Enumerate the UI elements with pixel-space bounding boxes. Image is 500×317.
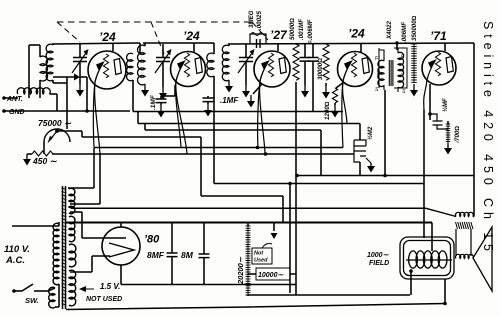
wire bus y154	[52, 152, 354, 156]
wire V6 top to B+	[120, 223, 122, 228]
wire stage3 top bus	[229, 43, 474, 44]
wire x290 down	[289, 184, 291, 294]
svg-text:8MF: 8MF	[147, 250, 165, 260]
svg-text:.001MF: .001MF	[298, 19, 305, 40]
capacitor C4 tuning stage3	[238, 44, 255, 85]
wire tap arrow	[271, 223, 278, 240]
svg-text:SW.: SW.	[25, 296, 39, 305]
svg-text:3MEG: 3MEG	[248, 10, 255, 28]
resistor R10 10000 ohm	[248, 268, 296, 280]
coil T1 secondary mid1	[69, 216, 75, 241]
label C11 8MF	[147, 250, 165, 260]
resistor R9 20200 ohm divider	[246, 223, 251, 297]
wire x283 down	[282, 196, 284, 223]
wire V5 grid lead	[424, 59, 437, 238]
wire bus y295	[248, 294, 410, 296]
wire V4 plate to top bus	[360, 43, 362, 52]
wire V4 cathode lead	[343, 62, 351, 124]
wire y130 drop right	[320, 130, 322, 176]
tube V1 '24	[88, 51, 126, 89]
ground below C3	[157, 105, 165, 118]
coil T3 secondary	[222, 43, 229, 81]
capacitor C9 .5MF bias bypass	[430, 114, 448, 129]
label V5 '71	[430, 29, 447, 43]
wire V3 cathode lead	[260, 62, 268, 153]
svg-text:’24: ’24	[348, 27, 365, 41]
ground below C1	[76, 84, 84, 97]
svg-text:Used: Used	[254, 258, 268, 264]
wire V5 plate to top bus	[444, 43, 446, 51]
label R4 1200	[324, 101, 331, 120]
capacitor C3 .1MF bypass	[156, 96, 167, 105]
label 1.5V not used	[79, 282, 122, 303]
wire T5 top right	[473, 176, 474, 217]
capacitor C2 tuning stage2	[155, 44, 172, 87]
label V1 '24	[99, 30, 116, 44]
wire V1 grid lead	[93, 61, 105, 147]
wire stage2 grid bus	[143, 42, 214, 44]
resistor R3 30000 ohm	[323, 44, 329, 86]
ground at R11	[366, 158, 375, 173]
resistor R6 700 ohm bias	[446, 121, 451, 143]
wire V6 bottom lead	[120, 265, 122, 285]
wire bus y176	[295, 174, 474, 178]
coil T1 primary lower	[48, 284, 59, 308]
wire x432 down to speaker	[431, 223, 433, 252]
svg-text:50000Ω: 50000Ω	[289, 18, 296, 40]
label R1 3MEG	[248, 10, 255, 28]
capacitor C8 .006MF coupling	[308, 44, 319, 112]
coil T1 secondary bottom	[69, 270, 76, 306]
tube V6 '80 rectifier	[102, 227, 140, 265]
svg-text:350000Ω: 350000Ω	[411, 15, 418, 41]
capacitor C6 .1MF cathode bypass	[203, 96, 214, 104]
wire secondary top to grid bus	[53, 43, 140, 45]
label C8 =.006MF	[307, 19, 314, 44]
transformer T5 output primary	[456, 212, 474, 216]
wire bus y123	[138, 112, 360, 124]
wire volume arm lead	[55, 129, 201, 137]
transformer T5 secondary	[456, 254, 474, 258]
svg-text:1000∼: 1000∼	[367, 252, 390, 259]
svg-text:=.006MF: =.006MF	[307, 19, 314, 44]
wire bus y196	[201, 195, 283, 197]
potentiometer R7 75000 ohm volume	[38, 118, 72, 144]
transformer T4 interstage	[375, 48, 407, 95]
ground below T2 secondary	[141, 84, 149, 97]
resistor R4 1200 ohm bias	[332, 88, 337, 105]
wire antenna coil to gnd bus	[50, 94, 58, 111]
component tap NOT USED	[252, 244, 272, 265]
wire V4 cathode to R4	[336, 82, 344, 88]
svg-text:1200Ω: 1200Ω	[324, 101, 331, 120]
speaker cone	[473, 227, 492, 291]
capacitor C12 8MF	[199, 223, 210, 285]
wire antenna lead	[4, 97, 18, 99]
wire R7 left leg	[43, 142, 45, 154]
svg-text:GND: GND	[9, 109, 25, 116]
capacitor C11 8MF	[167, 223, 178, 285]
svg-text:’71: ’71	[430, 29, 447, 43]
wire V2 cathode to bypass cap	[161, 85, 175, 96]
tube V2 '24	[171, 52, 206, 87]
wire V6 filament lead	[70, 256, 110, 272]
ground below V3 cathode	[247, 95, 255, 108]
wire T4 top to bus	[395, 41, 399, 50]
coil T2 primary	[127, 53, 133, 111]
node GND terminal	[2, 109, 24, 116]
svg-text:450 ∼: 450 ∼	[32, 156, 58, 166]
label V3 '27	[270, 28, 288, 42]
label 1000 ohm field	[367, 252, 390, 267]
wire V2 cathode lead	[176, 62, 187, 154]
tube V3 '27	[254, 51, 290, 87]
wire bus y183	[214, 182, 424, 186]
coil T1 secondary top	[69, 188, 75, 213]
label 110V AC	[4, 244, 30, 266]
svg-text:.1MF: .1MF	[220, 96, 239, 105]
wire cap bottom bus	[121, 284, 296, 286]
svg-text:30000Ω: 30000Ω	[317, 58, 324, 80]
wire stair x201	[200, 137, 202, 196]
svg-text:’80: ’80	[144, 234, 160, 246]
svg-text:’27: ’27	[270, 28, 288, 42]
resistor R11 bias block	[354, 140, 366, 176]
wire bus y130	[145, 124, 321, 131]
svg-text:Not: Not	[254, 251, 264, 257]
ground at R8	[23, 154, 32, 166]
wire ground bus	[4, 110, 130, 112]
node ANT terminal	[2, 96, 23, 103]
wire field coil leads	[409, 269, 447, 305]
label X4022	[386, 21, 393, 40]
wire bottom bus y306	[66, 304, 445, 310]
svg-text:½M2: ½M2	[367, 126, 374, 140]
label R5 350000	[411, 15, 418, 41]
coil T3 primary	[207, 53, 214, 183]
wire V1 cathode lead	[95, 63, 103, 204]
wire V4 grid lead	[342, 60, 353, 148]
ground below R5	[410, 84, 418, 97]
svg-text:8M: 8M	[181, 250, 194, 260]
speaker field coil housing	[400, 237, 454, 279]
resistor R2 50000 ohm	[293, 44, 299, 295]
wire 110V line	[12, 225, 59, 227]
coil T1 secondary mid2	[69, 244, 76, 267]
svg-text:10000∼: 10000∼	[258, 272, 284, 279]
transformer T5 core	[456, 222, 473, 229]
ground below R4	[331, 105, 339, 118]
resistor R1 3MEG grid leak	[250, 33, 266, 44]
svg-text:⁄700Ω: ⁄700Ω	[454, 126, 461, 144]
transformer T1 power core	[62, 186, 67, 309]
svg-text:NOT USED: NOT USED	[86, 296, 122, 303]
coil L2 antenna primary	[29, 45, 48, 98]
wire x67 down to volume control	[66, 77, 68, 129]
wire bus y111	[133, 111, 343, 113]
svg-text:75000 ∼: 75000 ∼	[38, 118, 72, 128]
svg-text:A.C.: A.C.	[5, 255, 25, 266]
coil L1 antenna series coil	[17, 88, 50, 94]
wire T4 primary bottom down	[384, 90, 386, 176]
svg-text:X4022: X4022	[386, 21, 393, 40]
label V2 '24	[183, 29, 200, 43]
label R6 700	[454, 126, 461, 144]
coil L3 antenna secondary	[46, 44, 53, 81]
wire bus y147	[94, 146, 343, 150]
wire V3 grid lead	[258, 60, 270, 148]
coil T2 secondary	[138, 43, 145, 85]
resistor R8 450 ohm	[32, 151, 58, 166]
label R3 30000	[317, 58, 324, 80]
label R2 50000	[289, 18, 296, 40]
ground below C6	[204, 104, 212, 117]
wire V2 plate to top bus	[193, 43, 195, 52]
ground below R6	[444, 143, 452, 155]
capacitor C5 .00025 grid cap	[257, 39, 261, 48]
label .006MF	[401, 22, 408, 43]
wire V3 cathode to ground	[253, 84, 262, 94]
wire V6 plate lead	[70, 212, 108, 238]
label V4 '24	[348, 27, 365, 41]
wire top bus to T2 primary	[139, 43, 141, 54]
wire heater lead y188	[68, 148, 94, 189]
wire B+ line y222	[66, 222, 432, 224]
svg-text:ANT.: ANT.	[6, 96, 23, 103]
label C7 .001MF	[298, 19, 305, 40]
tube V4 '24	[338, 52, 373, 87]
ground below C4	[242, 85, 250, 98]
svg-text:110 V.: 110 V.	[4, 244, 30, 255]
label R11	[367, 126, 374, 140]
label C9	[442, 98, 449, 112]
wire x87 vertical to ground bus	[80, 77, 89, 113]
label V6 '80	[144, 234, 160, 246]
ground below C2	[159, 87, 167, 100]
svg-text:’24: ’24	[99, 30, 116, 44]
label C3 .1MF	[150, 94, 157, 110]
svg-text:.1MF: .1MF	[150, 94, 157, 110]
wire V2 grid lead	[176, 60, 186, 147]
ground below T3 secondary	[225, 80, 233, 93]
wire dashed tuning gang link	[57, 22, 268, 54]
svg-text:1.5 V.: 1.5 V.	[100, 282, 120, 291]
wire top bus to T3 primary	[213, 43, 215, 54]
wire V3 plate to top bus	[277, 43, 279, 51]
wire bus y204	[70, 203, 100, 205]
tube V5 '71	[422, 51, 456, 85]
svg-text:½MF: ½MF	[442, 98, 449, 112]
switch SW	[12, 284, 48, 305]
svg-text:FIELD: FIELD	[369, 260, 389, 267]
ground below R3	[322, 86, 330, 99]
wire V5 cathode down	[428, 84, 432, 120]
svg-text:20200∼: 20200∼	[236, 256, 245, 285]
coil field winding	[406, 251, 452, 268]
wire bus y208	[71, 208, 456, 216]
svg-text:Steinite 420 450 Ch 15: Steinite 420 450 Ch 15	[481, 21, 495, 251]
wire V1 plate to top bus	[112, 43, 114, 51]
ground below C7	[301, 85, 309, 98]
wire L3 bottom junction	[53, 74, 80, 84]
svg-text:.006MF: .006MF	[401, 22, 408, 43]
wire B+ right vertical	[473, 43, 475, 176]
label C5 .00025	[256, 11, 263, 30]
label chassis caption Steinite 420 450 Ch 15	[481, 21, 495, 251]
resistor R5 350000 ohm	[411, 44, 417, 83]
label R9 20200	[236, 256, 245, 285]
wire y123 drop to bias block	[359, 124, 361, 141]
capacitor C1 antenna tuning	[72, 44, 89, 84]
coil T1 primary	[53, 222, 59, 285]
label C6 .1MF	[220, 96, 239, 105]
label C12 8MF	[181, 250, 194, 260]
svg-text:’24: ’24	[183, 29, 200, 43]
svg-text:.00025: .00025	[256, 11, 263, 30]
capacitor C7 .001MF	[300, 44, 311, 85]
transformer T5 windings vertical	[456, 229, 471, 256]
